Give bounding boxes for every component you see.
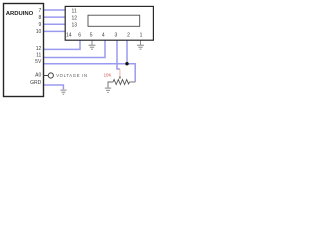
svg-text:GRD: GRD (30, 80, 42, 86)
LCD screen rect (88, 15, 140, 26)
wire GND from arduino (44, 85, 64, 89)
wire pin9 to LCD13 (44, 23, 66, 25)
ground pot (105, 88, 111, 92)
svg-text:11: 11 (36, 53, 41, 59)
svg-text:13: 13 (72, 23, 78, 29)
resistor right lead (130, 81, 136, 83)
LCD bottom pin labels (66, 33, 143, 39)
wire pin8 to LCD12 (44, 16, 66, 18)
svg-text:12: 12 (36, 46, 42, 52)
LCD left pin labels (72, 8, 78, 28)
pot wiper (119, 69, 121, 76)
resistor left lead (108, 82, 113, 88)
terminal VOLTAGE IN (48, 73, 53, 78)
svg-text:6: 6 (78, 33, 81, 39)
wire A0 to terminal (44, 75, 49, 77)
arduino pin labels (30, 8, 42, 86)
svg-text:12: 12 (72, 16, 78, 22)
svg-text:4: 4 (102, 33, 105, 39)
svg-text:8: 8 (39, 15, 42, 21)
svg-text:ARDUINO: ARDUINO (6, 11, 34, 17)
wire pin10 to LCD14 (44, 30, 66, 32)
svg-text:VOLTAGE IN: VOLTAGE IN (56, 73, 88, 78)
svg-text:10: 10 (36, 29, 42, 35)
wire 5V to pot (44, 64, 136, 82)
svg-text:1: 1 (140, 33, 143, 39)
pot wiper arrow (119, 77, 121, 80)
svg-text:A0: A0 (35, 72, 41, 78)
resistor zigzag (113, 80, 130, 85)
wire LCD3 to pot wiper (117, 40, 120, 69)
ground arduino GND (60, 90, 66, 94)
ground LCD pin1 (137, 40, 144, 49)
arduino U1 box (4, 4, 44, 97)
svg-text:7: 7 (39, 8, 42, 14)
wire pin7 to LCD11 (44, 9, 66, 11)
svg-text:11: 11 (72, 8, 77, 14)
node junction (125, 62, 128, 65)
svg-text:3: 3 (115, 33, 118, 39)
svg-text:2: 2 (127, 33, 130, 39)
svg-text:14: 14 (66, 33, 72, 39)
svg-text:10K: 10K (104, 72, 112, 77)
svg-text:5V: 5V (35, 59, 42, 65)
wire pin11 to LCD4 (44, 40, 106, 57)
ground LCD pin5 (89, 40, 96, 49)
wire pin12 to LCD6 (44, 40, 81, 49)
wire LCD2 down (126, 40, 128, 64)
resistor R1 10K pot (104, 69, 136, 88)
svg-text:5: 5 (90, 33, 93, 39)
LCD U2 box (65, 6, 153, 40)
svg-text:9: 9 (39, 22, 42, 28)
